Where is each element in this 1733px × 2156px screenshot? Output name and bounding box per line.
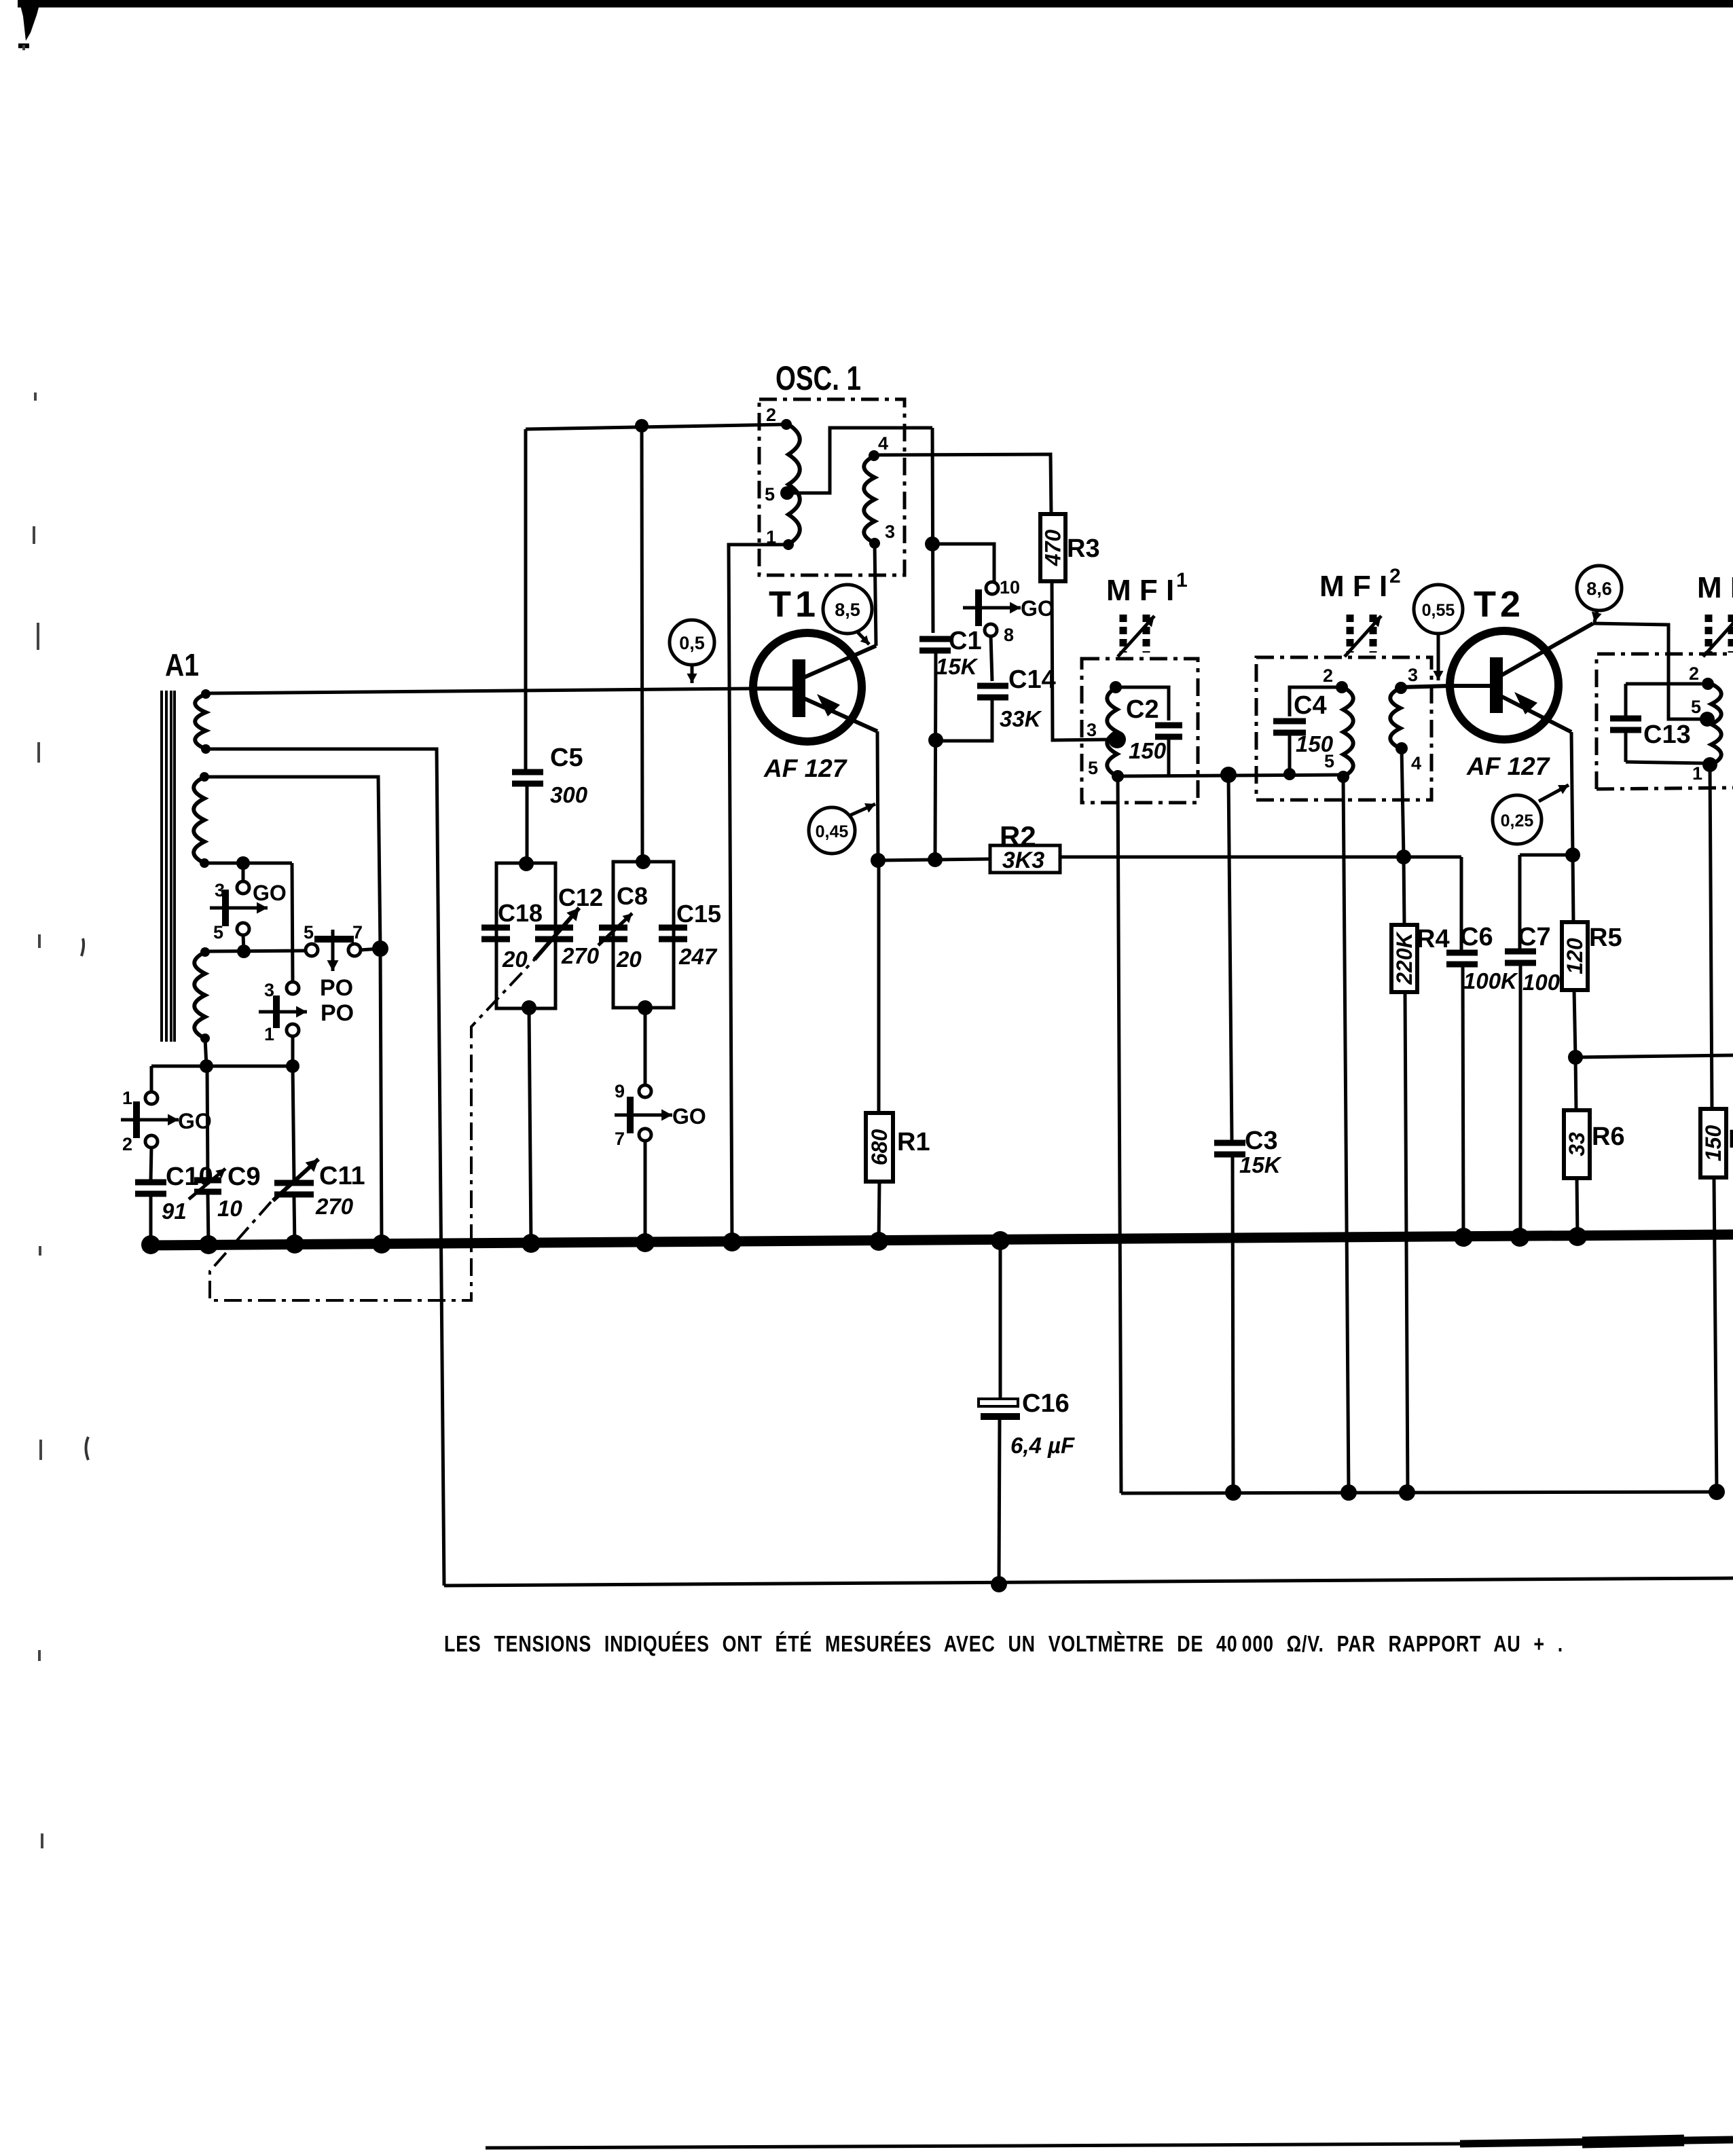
wire C13 top row [1626, 682, 1702, 686]
T2 emitter lead [1501, 692, 1571, 732]
svg-text:0,45: 0,45 [816, 822, 849, 841]
label OSC. 1 [776, 359, 861, 397]
MFI2 secondary coil [1390, 688, 1400, 748]
trimmer MFI2 [1345, 615, 1381, 657]
svg-text:C1: C1 [949, 627, 982, 655]
wire box C18 to bus [529, 1008, 531, 1245]
wire pin5-node down to C1 [925, 428, 940, 633]
svg-text:220K: 220K [1392, 930, 1417, 985]
wire C5 to box C18 [526, 784, 529, 863]
MFI3 pin 2 [1689, 663, 1714, 690]
svg-text:C18: C18 [498, 899, 543, 927]
svg-text:M F: M F [1697, 571, 1733, 604]
label MFI3 [1697, 571, 1733, 604]
svg-text:AF 127: AF 127 [763, 754, 848, 782]
antenna coil L1a [195, 689, 211, 754]
wire to GO S4 contact 1 [150, 1066, 153, 1092]
svg-text:0,25: 0,25 [1501, 811, 1534, 830]
svg-text:1: 1 [1176, 569, 1188, 591]
svg-text:4: 4 [1411, 753, 1421, 773]
wire coil L1b top [204, 777, 380, 949]
capacitor C10 [135, 1163, 213, 1224]
capacitor C16 electrolytic [979, 1241, 1075, 1584]
switch PO S3 contact 5 [304, 922, 318, 956]
antenna coil L1b [194, 772, 209, 868]
meter 0,25 [1493, 785, 1569, 844]
capacitor C2 [1126, 695, 1182, 763]
svg-text:3: 3 [1087, 720, 1097, 740]
svg-text:7: 7 [352, 922, 363, 943]
T1 base lead [752, 687, 792, 691]
box C8/C15 [613, 854, 674, 1015]
rail junction [1225, 1484, 1241, 1501]
MFI3 coil [1711, 684, 1721, 765]
svg-text:2: 2 [122, 1134, 132, 1154]
svg-text:C16: C16 [1022, 1389, 1070, 1418]
antenna ferrite rod [162, 691, 175, 1042]
capacitor C12 variable [534, 883, 603, 968]
svg-text:R1: R1 [897, 1128, 930, 1156]
trimmer MFI1 [1118, 615, 1154, 657]
switch GO S4 [121, 1101, 212, 1138]
label MFI2 [1319, 565, 1401, 603]
svg-text:2: 2 [1389, 565, 1401, 587]
svg-text:33: 33 [1565, 1132, 1589, 1156]
wire T2 base [1401, 686, 1450, 687]
svg-text:C11: C11 [319, 1162, 365, 1190]
switch PO S2 contact 3 [264, 980, 299, 1000]
svg-text:91: 91 [162, 1199, 187, 1224]
svg-text:2: 2 [1323, 665, 1333, 686]
wire R2 to R4 node [1060, 856, 1461, 859]
svg-text:C14: C14 [1008, 665, 1056, 694]
switch GO S1 contact 5 [213, 922, 249, 943]
MFI3 pin 5 [1691, 697, 1715, 727]
MFI1 pin 3 [1087, 720, 1126, 748]
wire L1b bottom down to PO switch [292, 863, 293, 983]
switch PO S3 [314, 930, 354, 1001]
label T1 [769, 584, 820, 625]
svg-text:M F I: M F I [1319, 570, 1387, 603]
svg-text:PO: PO [320, 975, 353, 1001]
AGC rail [1121, 1492, 1719, 1493]
svg-text:3: 3 [1408, 665, 1418, 685]
svg-text:20: 20 [502, 947, 528, 972]
svg-text:C15: C15 [676, 900, 721, 928]
capacitor C14 [977, 665, 1056, 731]
wire C3 to rail [1233, 1154, 1233, 1493]
svg-text:270: 270 [315, 1194, 354, 1219]
meter 0,45 [809, 803, 875, 854]
switch GO S5 contact 9 [615, 1081, 651, 1101]
meter 8,5 [823, 585, 872, 644]
wire T2 collector to MFI3 pin5 [1593, 623, 1702, 719]
bus junction [1510, 1228, 1529, 1247]
wire C13 bottom row [1626, 762, 1704, 763]
antenna A1 label [165, 647, 199, 682]
resistor R7 [1700, 765, 1733, 1492]
MFI1 coil top node [1110, 681, 1122, 693]
svg-text:GO: GO [1021, 596, 1055, 621]
wire R5 to R6 [1568, 990, 1583, 1065]
svg-text:3K3: 3K3 [1002, 847, 1044, 873]
svg-text:3: 3 [885, 522, 895, 542]
meter 0,5 [670, 620, 714, 683]
MFI2 pin 2 [1323, 665, 1348, 693]
T1 emitter wire down [877, 731, 878, 860]
svg-text:6,4 µF: 6,4 µF [1010, 1433, 1075, 1458]
caption text [444, 1631, 1563, 1656]
svg-text:270: 270 [561, 943, 600, 968]
svg-text:C8: C8 [617, 882, 648, 910]
resistor R2 [990, 820, 1060, 873]
page edge line bottom [486, 2140, 1733, 2148]
MFI1 coil [1107, 687, 1117, 776]
bus junction [372, 1235, 391, 1254]
resistor R3 [1040, 514, 1100, 581]
rail junction [1709, 1484, 1725, 1500]
capacitor C8 variable [598, 882, 648, 972]
switch PO S3 contact 7 [348, 922, 363, 956]
capacitor C18 [481, 899, 543, 939]
svg-text:150: 150 [1701, 1125, 1726, 1162]
svg-text:3: 3 [264, 980, 274, 1000]
wire C4 top [1290, 687, 1336, 716]
bus junction [285, 1235, 304, 1254]
wire GO S5 to bus [644, 1140, 647, 1245]
transformer MFI1 box [1082, 659, 1198, 803]
svg-text:5: 5 [765, 484, 775, 505]
MFI3 pin 1 [1692, 757, 1717, 784]
svg-text:C6: C6 [1460, 923, 1493, 951]
MFI2 pin 3 [1395, 665, 1418, 694]
wire coil L1a bottom down to bottom rail [206, 749, 444, 1586]
svg-text:4: 4 [878, 433, 888, 454]
switch PO S2 contact 1 [264, 1024, 299, 1044]
bus junction [991, 1231, 1010, 1250]
svg-text:247: 247 [678, 944, 718, 969]
svg-text:20: 20 [616, 947, 642, 972]
svg-text:OSC. 1: OSC. 1 [776, 359, 861, 397]
rail junction [1340, 1484, 1357, 1501]
switch PO S2 [259, 995, 354, 1028]
svg-text:GO: GO [253, 881, 287, 905]
wire coil L1c top / PO selector line [205, 945, 306, 958]
OSC1 pin 2 [766, 405, 792, 430]
node L1b-GO tap [236, 856, 250, 882]
OSC1 pin 3 [869, 522, 895, 549]
wire C2 top [1116, 687, 1169, 720]
svg-text:8,6: 8,6 [1586, 579, 1612, 599]
svg-text:1: 1 [264, 1024, 274, 1044]
wire MFI1 pin5 to rail [1118, 776, 1121, 1493]
wire contact7 to node [360, 940, 388, 957]
T2 collector lead [1501, 623, 1593, 676]
wire box C8 to GO S5 [644, 1008, 647, 1085]
capacitor C7 [1505, 855, 1577, 1240]
svg-text:PO: PO [321, 1000, 354, 1026]
svg-text:100K: 100K [1463, 968, 1518, 993]
transformer MFI3 box [1597, 654, 1733, 789]
svg-text:C7: C7 [1518, 923, 1551, 951]
svg-text:7: 7 [615, 1129, 625, 1149]
svg-text:15K: 15K [936, 654, 979, 679]
svg-text:9: 9 [615, 1081, 625, 1101]
bus junction [1568, 1227, 1587, 1246]
wire coil L1c bottom [205, 1038, 206, 1066]
label AF 127 T1 [763, 754, 848, 782]
svg-text:5: 5 [1088, 758, 1098, 778]
svg-text:2: 2 [1689, 663, 1699, 684]
wire T2 emitter down [1565, 732, 1580, 862]
T1 emitter lead [803, 694, 877, 731]
switch GO S5 [615, 1097, 706, 1133]
wire PO S2 to node [291, 1036, 295, 1066]
capacitor C13 [1610, 684, 1691, 762]
svg-text:T2: T2 [1474, 584, 1525, 625]
svg-text:5: 5 [304, 922, 314, 943]
bus junction [636, 1233, 655, 1252]
svg-text:R3: R3 [1067, 534, 1100, 563]
svg-text:C12: C12 [558, 883, 603, 911]
switch GO S6 contact 8 [985, 624, 1014, 645]
label MFI1 [1106, 569, 1188, 607]
OSC1 secondary coil [864, 456, 875, 543]
wire contact2 to C10 [151, 1147, 151, 1180]
bus junction [1454, 1228, 1473, 1247]
wire R3 to MFI1 pin3 [1052, 582, 1111, 740]
T1 collector lead [803, 646, 876, 678]
svg-text:300: 300 [550, 782, 588, 807]
svg-text:C13: C13 [1643, 720, 1691, 749]
OSC1 pin 1 [766, 527, 794, 550]
capacitor C1 [919, 627, 982, 679]
svg-text:1: 1 [1692, 763, 1702, 784]
wire node row y1570 [151, 1059, 299, 1073]
wire C7 row [1520, 854, 1573, 857]
OSC1 pin 5 [765, 484, 794, 505]
capacitor C9 variable [189, 1066, 261, 1245]
svg-text:10: 10 [1000, 577, 1020, 598]
capacitor C4 [1273, 691, 1334, 756]
svg-text:470: 470 [1041, 530, 1065, 567]
svg-text:R: R [1728, 1125, 1733, 1154]
switch GO S1 contact 3 [215, 880, 249, 900]
bus junction [522, 1234, 541, 1253]
wire C2 bottom [1167, 737, 1171, 776]
wire emitter node row [871, 852, 990, 868]
svg-text:8: 8 [1004, 625, 1014, 645]
svg-text:33K: 33K [1000, 706, 1042, 731]
label AF 127 T2 [1466, 752, 1551, 780]
capacitor C15 [659, 900, 721, 969]
transformer MFI2 box [1256, 657, 1431, 800]
MFI2 pin 4 [1395, 742, 1421, 773]
svg-text:C2: C2 [1126, 695, 1159, 724]
bottom return wire [444, 1576, 1733, 1592]
wire down to C6 [1460, 857, 1463, 950]
OSC1 primary coil [788, 424, 800, 545]
wire node to GO S6 [932, 544, 994, 582]
bus junction [723, 1232, 742, 1251]
switch GO S4 contact 1 [122, 1088, 158, 1108]
wire C14 to junction [941, 697, 992, 741]
antenna coil L1c [194, 947, 210, 1043]
trimmer MFI3 [1703, 615, 1733, 657]
switch GO S4 contact 2 [122, 1134, 158, 1154]
resistor R4 [1391, 857, 1450, 1493]
svg-text:C3: C3 [1245, 1127, 1278, 1155]
svg-text:15K: 15K [1239, 1152, 1282, 1177]
meter 0,55 [1414, 585, 1463, 680]
wire pin4 to R4 node [1396, 748, 1411, 864]
wire pin3 to collector node [875, 543, 876, 646]
wire junction to box C8 [642, 426, 642, 862]
svg-text:2: 2 [766, 405, 776, 425]
box C18/C12 [496, 856, 555, 1015]
resistor R6 [1564, 1057, 1625, 1238]
svg-text:C9: C9 [227, 1163, 261, 1191]
bus junction [141, 1235, 160, 1254]
wire coil L1b bottom [204, 862, 292, 865]
wire pin5 tap [787, 428, 932, 493]
page edge smudge top [18, 0, 1733, 48]
svg-text:C4: C4 [1294, 691, 1327, 720]
capacitor C5 [512, 744, 588, 807]
svg-text:0,5: 0,5 [679, 633, 705, 653]
svg-text:120: 120 [1563, 938, 1587, 974]
bus junction [199, 1235, 218, 1254]
wire contact5 to PO line [243, 934, 244, 951]
svg-text:5: 5 [1324, 751, 1334, 771]
wire C10 to bus [149, 1196, 153, 1245]
capacitor C6 [1446, 923, 1518, 1240]
transistor T1 AF127 [753, 633, 862, 742]
svg-text:M F I: M F I [1106, 574, 1174, 607]
mechanical link dash-dot [210, 960, 534, 1300]
resistor R1 [866, 860, 930, 1244]
svg-text:LES TENSIONS INDIQUÉES ONT ÉTÉ: LES TENSIONS INDIQUÉES ONT ÉTÉ MESURÉES … [444, 1631, 1563, 1656]
wire C5 branch [524, 429, 528, 772]
MFI2 primary coil [1343, 687, 1353, 777]
margin specks [22, 45, 88, 1848]
capacitor C3 [1214, 1127, 1282, 1177]
label T2 [1474, 584, 1525, 625]
value C18 [502, 947, 528, 972]
svg-text:150: 150 [1129, 738, 1167, 763]
switch GO S5 contact 7 [615, 1129, 651, 1149]
wire node to right edge [1575, 1055, 1733, 1057]
wire coil L1a top to T1 base [206, 689, 752, 693]
transformer OSC1 box [759, 399, 905, 575]
wire MFI2 pin5 to rail [1343, 777, 1349, 1493]
svg-text:8,5: 8,5 [835, 600, 860, 620]
capacitor C11 variable [273, 1066, 365, 1245]
wire C4 bottom [1288, 733, 1292, 774]
switch GO S6 contact 10 [986, 577, 1020, 598]
svg-text:T1: T1 [769, 584, 820, 625]
T2 base lead [1450, 684, 1490, 688]
transistor T2 AF127 [1450, 631, 1558, 739]
rail junction [1399, 1484, 1415, 1501]
svg-text:GO: GO [672, 1104, 706, 1129]
svg-text:5: 5 [1691, 697, 1701, 717]
wire top node row [526, 419, 786, 433]
wire pin1 to bus [729, 545, 788, 1245]
svg-text:R5: R5 [1589, 924, 1622, 952]
MFI2 pin 5 [1324, 751, 1349, 783]
svg-text:R6: R6 [1592, 1122, 1625, 1151]
wire node to bus [380, 949, 382, 1245]
svg-text:R4: R4 [1417, 925, 1450, 953]
svg-text:680: 680 [867, 1129, 892, 1166]
wire contact8 to C14 [991, 636, 992, 681]
meter 8,6 [1577, 566, 1622, 622]
svg-text:AF 127: AF 127 [1466, 752, 1551, 780]
wire C1 to junction [928, 651, 943, 860]
bus junction [869, 1232, 888, 1251]
wire MFI1 pin5 row [1118, 767, 1343, 783]
OSC1 pin 4 [869, 433, 888, 461]
MFI1 pin 5 [1088, 758, 1124, 782]
switch GO S6 [963, 589, 1055, 626]
svg-text:A1: A1 [165, 647, 199, 682]
resistor R5 [1562, 855, 1622, 990]
svg-text:0,55: 0,55 [1422, 601, 1455, 620]
wire node to C3 [1228, 775, 1232, 1140]
svg-text:C5: C5 [550, 744, 583, 772]
svg-text:1: 1 [122, 1088, 132, 1108]
svg-text:10: 10 [217, 1196, 242, 1221]
svg-text:5: 5 [213, 922, 223, 943]
switch GO S1 [210, 881, 287, 926]
wire pin4 to R3 [874, 454, 1051, 515]
supply bus [143, 1235, 1733, 1245]
